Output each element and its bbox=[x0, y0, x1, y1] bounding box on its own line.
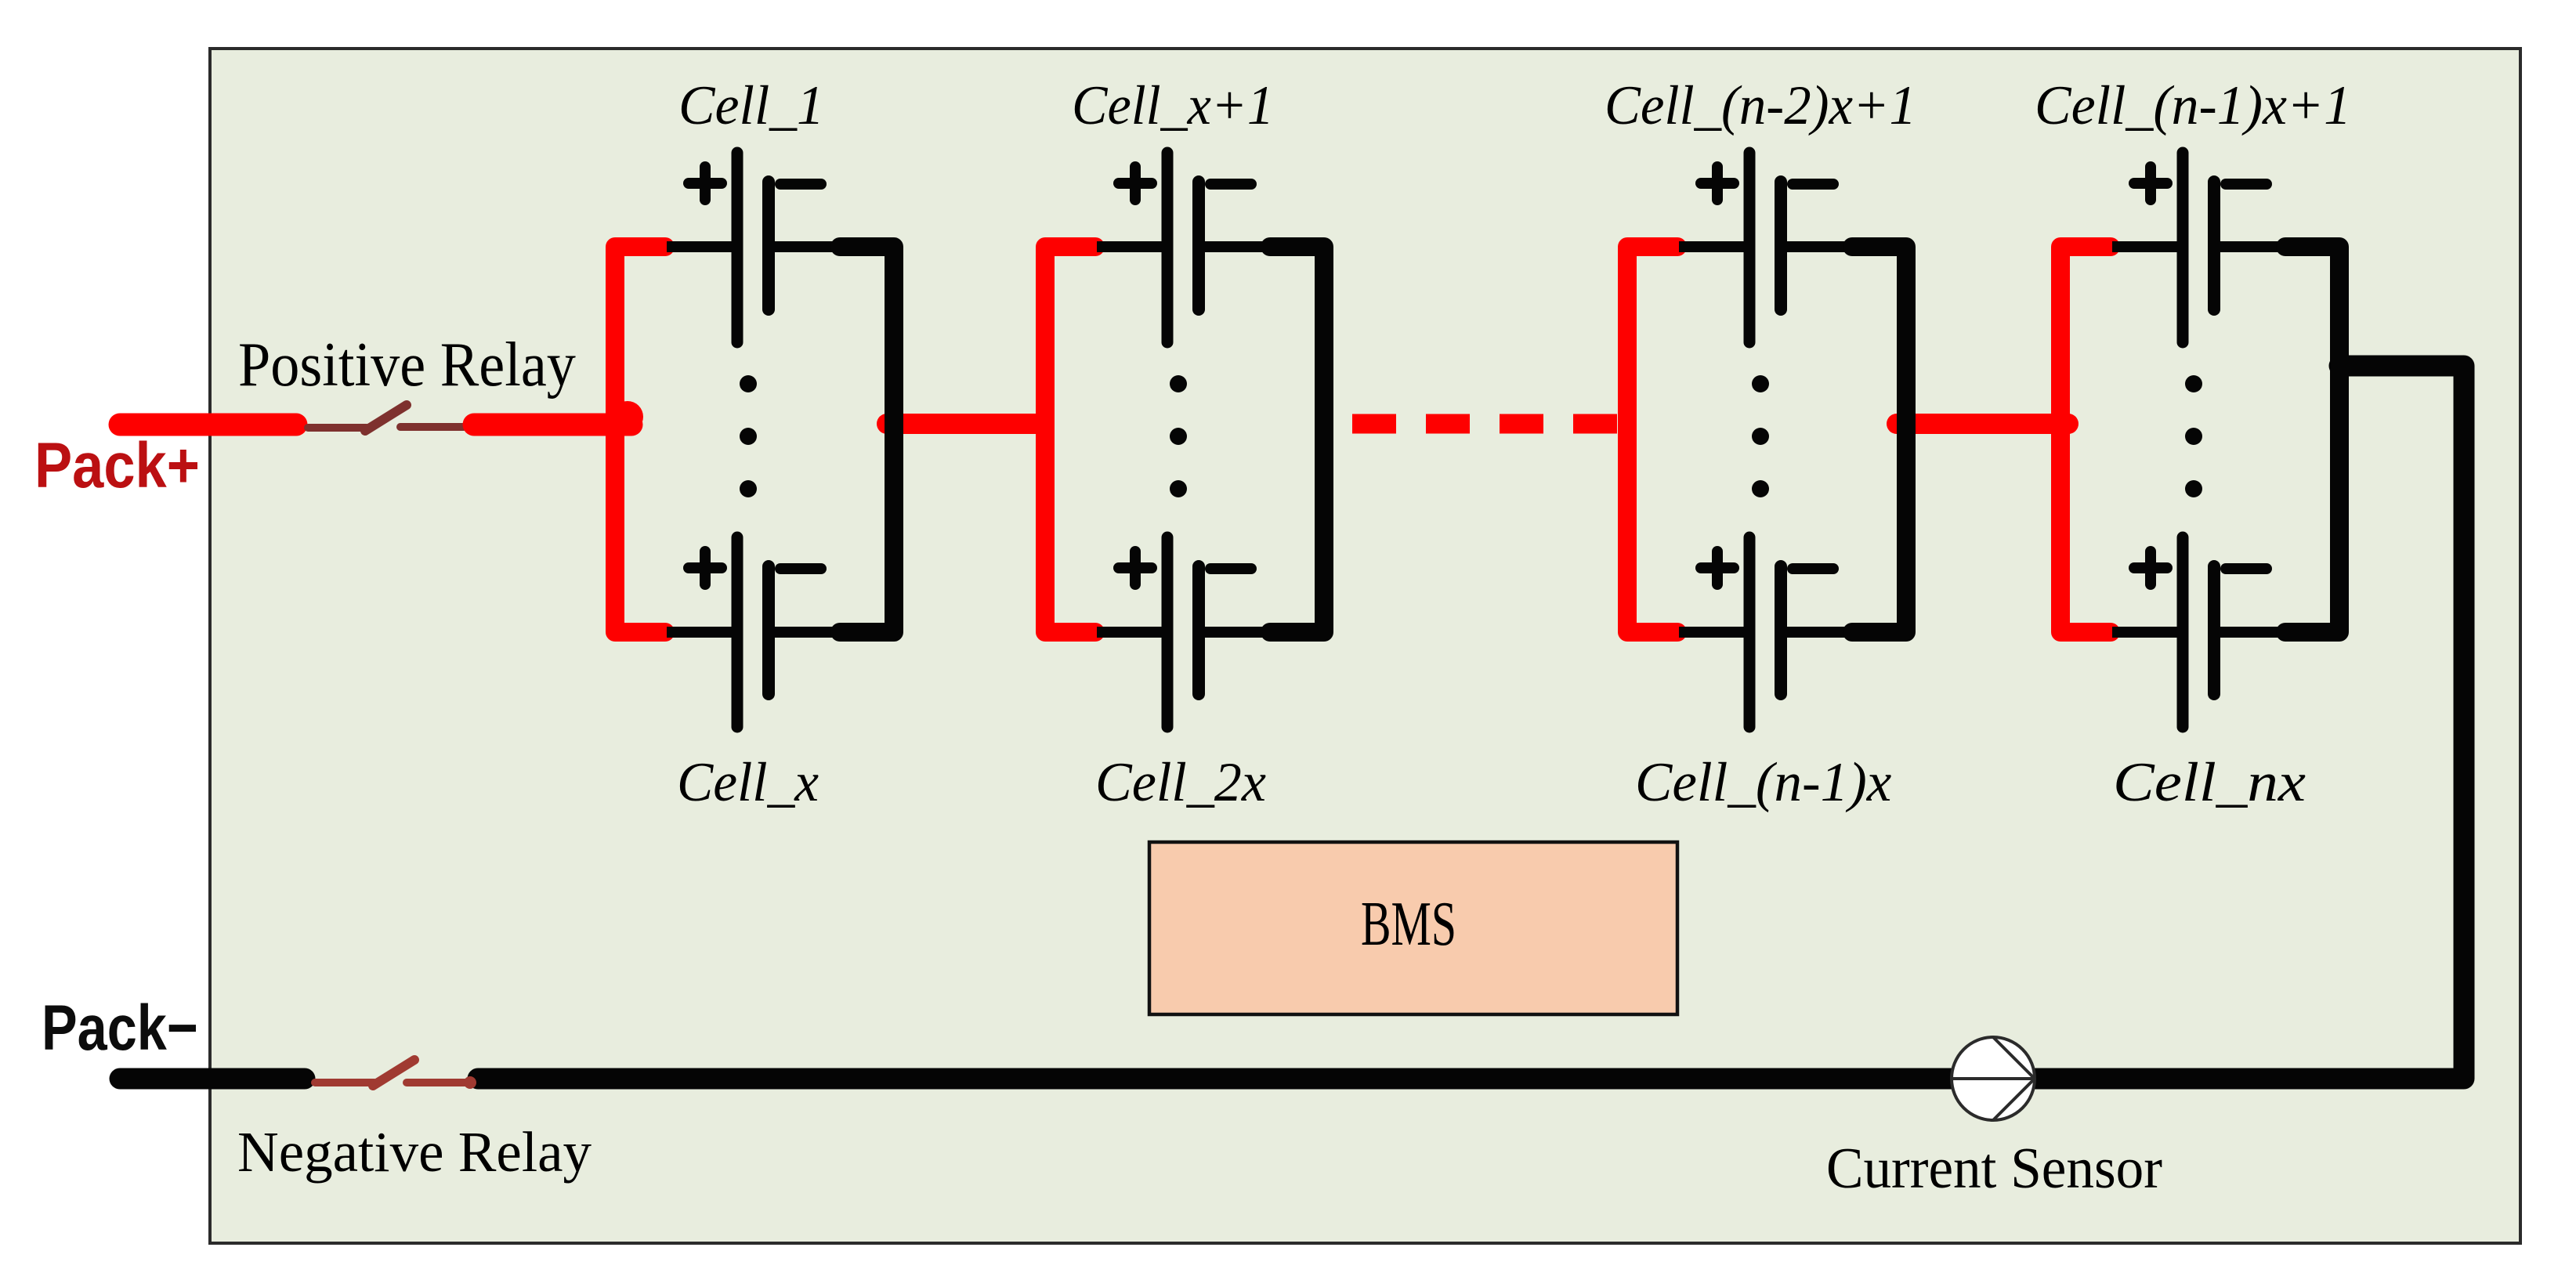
ellipsis dots bbox=[2185, 375, 2202, 392]
svg-text:Pack+: Pack+ bbox=[34, 430, 200, 501]
cell group module 1 (Cell_1 ... Cell_x) bbox=[615, 153, 894, 727]
battery cell bottom: plates bbox=[732, 537, 743, 727]
plus sign top bbox=[689, 178, 722, 189]
svg-text:Cell_nx: Cell_nx bbox=[2113, 752, 2306, 813]
label Cell_(n-2)x+1 bbox=[1605, 75, 1916, 136]
wire thin leads bbox=[2112, 247, 2290, 632]
plus sign bottom bbox=[689, 562, 722, 573]
minus sign bottom bbox=[1210, 563, 1251, 574]
label Current Sensor bbox=[1826, 1136, 2162, 1201]
svg-text:BMS: BMS bbox=[1361, 889, 1456, 960]
battery cell bottom: plates bbox=[2177, 537, 2189, 727]
cell group module 3 (Cell_(n-2)x+1 ... Cell_(n-1)x) bbox=[1627, 153, 1906, 727]
wire group4 to bottom bus (right side return) bbox=[478, 366, 2464, 1079]
wire group3 to group4 bbox=[1897, 414, 2068, 434]
svg-text:Positive Relay: Positive Relay bbox=[238, 329, 576, 399]
svg-text:Cell_(n-1)x: Cell_(n-1)x bbox=[1635, 752, 1891, 813]
wire black parallel bus right bbox=[1270, 247, 1324, 632]
svg-text:Negative Relay: Negative Relay bbox=[237, 1120, 592, 1184]
svg-text:Cell_x+1: Cell_x+1 bbox=[1072, 75, 1274, 137]
node Pack- label bbox=[42, 992, 198, 1064]
minus sign top bbox=[780, 179, 821, 190]
label Negative Relay bbox=[237, 1120, 592, 1184]
label Positive Relay bbox=[238, 329, 576, 399]
ellipsis dots bbox=[1752, 375, 1769, 392]
svg-text:Cell_(n-1)x+1: Cell_(n-1)x+1 bbox=[2035, 75, 2351, 137]
label Cell_x bbox=[677, 751, 819, 813]
label Cell_nx bbox=[2113, 752, 2306, 813]
minus sign bottom bbox=[1793, 563, 1833, 574]
label Cell_1 bbox=[678, 74, 824, 136]
ellipsis dots bbox=[740, 375, 757, 392]
BMS label bbox=[1361, 889, 1456, 960]
svg-text:Current Sensor: Current Sensor bbox=[1826, 1136, 2162, 1201]
wire black parallel bus right bbox=[840, 247, 894, 632]
current sensor CS1 bbox=[1952, 1037, 2035, 1120]
wire Pack+ lead bbox=[120, 414, 296, 436]
battery cell top: plates bbox=[1119, 153, 1251, 727]
label Cell_2x bbox=[1095, 752, 1266, 814]
battery cell top: plates bbox=[2134, 153, 2267, 727]
wire black parallel bus right bbox=[2285, 247, 2339, 632]
plus sign bottom bbox=[2134, 562, 2167, 573]
wire black parallel bus right bbox=[1852, 247, 1906, 632]
cell group module 2 (Cell_x+1 ... Cell_2x) bbox=[1045, 153, 1324, 727]
minus sign top bbox=[1793, 179, 1833, 190]
battery cell top: plates bbox=[1701, 153, 1833, 727]
svg-text:Cell_x: Cell_x bbox=[677, 751, 819, 813]
minus sign bottom bbox=[2226, 563, 2267, 574]
ellipsis dots bbox=[1170, 375, 1187, 392]
svg-text:Cell_2x: Cell_2x bbox=[1095, 752, 1266, 814]
svg-text:Cell_1: Cell_1 bbox=[678, 74, 824, 136]
plus sign bottom bbox=[1701, 562, 1734, 573]
plus sign top bbox=[2134, 178, 2167, 189]
positive relay K1 bbox=[308, 405, 464, 431]
wire thin leads bbox=[667, 247, 845, 632]
label Cell_x+1 bbox=[1072, 75, 1274, 137]
svg-text:Cell_(n-2)x+1: Cell_(n-2)x+1 bbox=[1605, 75, 1916, 136]
label Cell_(n-1)x bbox=[1635, 752, 1891, 813]
plus sign bottom bbox=[1119, 562, 1152, 573]
wire red parallel bus left bbox=[1627, 247, 1677, 632]
minus sign top bbox=[1210, 179, 1251, 190]
wire red parallel bus left bbox=[2060, 247, 2111, 632]
node relay-bus junction dot bbox=[464, 1076, 476, 1089]
svg-text:Pack−: Pack− bbox=[42, 992, 198, 1064]
wire thin leads bbox=[1097, 247, 1275, 632]
wire Pack- lead bbox=[120, 1068, 305, 1090]
battery cell bottom: plates bbox=[1744, 537, 1756, 727]
battery cell top: plates bbox=[689, 153, 821, 727]
wire dashed red (omitted groups) bbox=[1352, 414, 1619, 434]
battery cell bottom: plates bbox=[1162, 537, 1174, 727]
wire red parallel bus left bbox=[615, 247, 665, 632]
minus sign bottom bbox=[780, 563, 821, 574]
node Pack+ label bbox=[34, 430, 200, 501]
negative relay K2 bbox=[315, 1060, 472, 1086]
plus sign top bbox=[1119, 178, 1152, 189]
node junction bulge bbox=[612, 401, 643, 432]
label Cell_(n-1)x+1 bbox=[2035, 75, 2351, 137]
cell group module 4 (Cell_(n-1)x+1 ... Cell_nx) bbox=[2060, 153, 2339, 727]
plus sign top bbox=[1701, 178, 1734, 189]
wire group1 to group2 bbox=[887, 414, 1044, 434]
wire thin leads bbox=[1679, 247, 1857, 632]
BMS box U1 bbox=[1149, 842, 1677, 1014]
wire red parallel bus left bbox=[1045, 247, 1095, 632]
wire relay to group1 node bbox=[474, 414, 631, 436]
minus sign top bbox=[2226, 179, 2267, 190]
